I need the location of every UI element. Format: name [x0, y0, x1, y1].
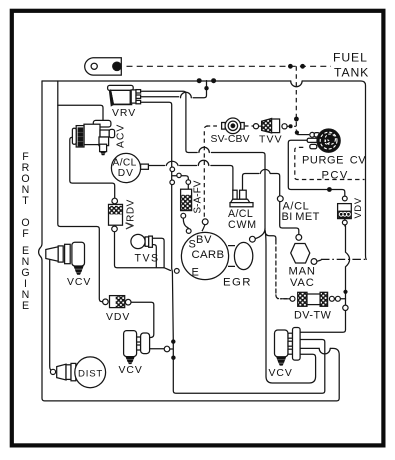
wire: VCV-BR port2 right, down, bottom y393, up to carb-E line — [173, 340, 324, 394]
wire: ACV feed from x57.8 top area — [58, 105, 103, 120]
wire: TVS upper port right and down — [152, 238, 164, 267]
wire: EGR junction from x265 vertical: curve into EGR circle — [255, 229, 265, 239]
svg-text:SV-CBV: SV-CBV — [211, 134, 250, 145]
switch TVS — [131, 234, 153, 248]
wire: PURGE middle prong left, down, right, down to BIMET valve top circle — [288, 140, 345, 195]
valve ACV — [72, 120, 114, 155]
valve VCV bottom-right — [275, 328, 301, 366]
node: carb top circles — [186, 229, 191, 234]
svg-text:A/CL: A/CL — [113, 157, 137, 168]
node: dots on carb-E vertical — [171, 339, 175, 343]
node: circles on carb-E vertical — [170, 167, 175, 172]
wire: CWM right pin up and right to BIMET circle, hop over x265 — [243, 169, 280, 195]
node: SV-CBV line circles — [253, 124, 258, 129]
wire: TVS lower port right and down — [152, 245, 156, 268]
wire: dashed box around PURGE CV / PCV labels — [295, 147, 365, 179]
node: dot on PCV wire — [327, 187, 332, 192]
svg-text:VAC: VAC — [290, 277, 315, 289]
valve A/CL BI MET (thermo valve) — [338, 204, 352, 219]
node: BIMET label circle — [277, 196, 283, 202]
svg-text:VDV: VDV — [353, 197, 363, 218]
svg-text:PURGE CV: PURGE CV — [302, 154, 366, 166]
wire: H2 dip hop under fuel-tank dashed vertical — [291, 81, 302, 87]
wire: VRV middle prong, hop, up to H2 — [141, 81, 207, 98]
svg-text:VCV: VCV — [119, 365, 143, 376]
valve VRV — [108, 85, 141, 105]
wire: dash-dot from DV-TW left circle going left — [277, 298, 290, 300]
valve DV-TW — [298, 292, 328, 306]
svg-text:TANK: TANK — [334, 65, 369, 79]
valve VRDV — [109, 204, 123, 225]
wire: dist feed from VCV-L nozzle down to DIST nozzle circle — [50, 260, 52, 371]
label FRONT OF ENGINE (vertical) — [21, 151, 29, 312]
wire: S-A-FV branch from carb-E line — [172, 176, 188, 189]
svg-text:BV: BV — [196, 234, 212, 246]
wire: EGR junction branch right then dashed down to DV-TW left circle — [265, 232, 276, 241]
svg-text:VCV: VCV — [67, 277, 91, 288]
node: fuel line dots — [288, 64, 293, 69]
valve VDV — [110, 296, 125, 308]
EGR valve — [234, 242, 252, 269]
svg-text:VCV: VCV — [269, 368, 293, 379]
wire: x57.8 from H2 down, right, down to VDV left circle — [58, 81, 103, 302]
svg-text:F: F — [22, 228, 29, 240]
wire: VDV right circle to VCV-mid cap top — [131, 302, 154, 337]
wire: dash-dot manifold line from MAN VAC to right edge — [321, 258, 366, 260]
wire: EGR junction main continue down, around VCV-BR enclosure, to port4 — [265, 230, 316, 384]
wire: A/CL DV output H3 with two hops, down to CWM left pin — [148, 160, 233, 190]
svg-text:EGR: EGR — [223, 276, 252, 288]
svg-text:CWM: CWM — [228, 219, 257, 231]
node: VRDV circles — [112, 198, 118, 204]
wire: ACV left port down and right to VRDV top circle — [70, 137, 115, 198]
svg-text:S-A-FV: S-A-FV — [193, 180, 204, 213]
svg-text:FUEL: FUEL — [333, 51, 368, 65]
node: VCV-mid right circle — [164, 346, 170, 352]
svg-text:DIST: DIST — [78, 369, 103, 380]
svg-text:PCV: PCV — [322, 170, 349, 182]
valve PURGE CV — [307, 129, 340, 152]
wire: SV-CBV / TVV dashed line — [206, 125, 296, 127]
node: DV-TW circles — [290, 296, 295, 301]
valve A/CL DV — [111, 153, 148, 182]
node: stray arrow mark — [126, 223, 133, 229]
wire: S-A-FV bottom circle curve to carb top circle — [183, 218, 188, 228]
node: fuel vertical dots — [294, 117, 299, 122]
sensor top-left cylinder — [85, 58, 122, 75]
wire: carb E line (VRV bottom prong long line) — [141, 102, 174, 341]
valve S-A-FV — [181, 189, 192, 210]
wire: VCV-BR port3 with dip hop under x325 vertical — [300, 348, 330, 354]
node: MAN VAC circles — [296, 235, 302, 241]
node: EGR top circle — [250, 236, 256, 242]
node: dots on right vertical x345 — [343, 290, 347, 294]
node: circle on x345 vertical — [343, 305, 348, 310]
node: BIMET valve circles — [342, 196, 347, 201]
wire: VCV-BR port1 right and up to DV-TW junction and BIMET valve, with right bulge hop at dash-dot — [300, 226, 349, 333]
wire: VCV-mid right port to circle and carb-E vertical — [150, 348, 173, 350]
svg-text:TVV: TVV — [259, 134, 283, 145]
sensor A/CL CWM — [230, 190, 253, 207]
node: circle on S-A-FV branch — [177, 173, 181, 177]
wire: dashed corner down from SV-CBV line to S-A-FV vertical — [204, 126, 208, 219]
node: dot on TVV dashed line — [289, 124, 293, 128]
wire: inner loop (left edge, top H2, right edge) — [42, 81, 366, 259]
valve SV-CBV — [222, 118, 245, 134]
wire: VRV top prong to L1 and long right vertical — [141, 91, 266, 228]
svg-text:DV: DV — [118, 168, 134, 179]
wire: fuel dashed vertical down to PURGE CV prong — [295, 66, 297, 130]
wire: left edge down with detour around VCV nozzle, bottom run, up to VCV-BR port3 — [39, 81, 340, 401]
svg-text:BI MET: BI MET — [282, 211, 320, 223]
svg-text:ACV: ACV — [116, 124, 127, 148]
svg-text:DV-TW: DV-TW — [294, 310, 332, 322]
node: E port circle — [174, 269, 179, 274]
svg-text:MAN: MAN — [289, 266, 316, 278]
svg-text:E: E — [22, 300, 29, 312]
distributor DIST — [57, 357, 106, 388]
valve VCV middle — [124, 331, 150, 365]
valve MAN VAC (hexagon) — [291, 244, 310, 264]
node: VDV circles — [103, 299, 109, 305]
wire: BIMET valve bottom circle continues down (joins vertical) — [344, 219, 346, 226]
node: dot below H2 on middle prong riser — [204, 86, 208, 90]
node: DIST nozzle circle — [50, 369, 55, 374]
svg-text:TVS: TVS — [135, 253, 160, 265]
wire: VRDV bottom circle down and right to E junction — [115, 232, 171, 271]
wire: FUEL TANK dashed line — [127, 65, 332, 67]
wire: L1 hop over dashed SAFV vertical — [199, 147, 209, 152]
svg-text:VDV: VDV — [106, 312, 130, 323]
svg-text:VRV: VRV — [112, 108, 136, 119]
wire: DV-TW right circles to vertical — [334, 298, 345, 300]
connector circles (open) — [50, 124, 348, 375]
wire: MAN VAC right circle to dash-dot line — [317, 260, 321, 261]
wire: BIMET circle down, right, to MAN VAC top circle — [280, 202, 299, 235]
svg-text:CARB: CARB — [192, 249, 225, 261]
node: PURGE prong1 circle — [310, 132, 315, 137]
svg-text:T: T — [22, 195, 29, 207]
carburetor SBV CARB — [181, 232, 252, 279]
node: H2 dots — [197, 78, 202, 83]
valve TVV — [262, 118, 280, 133]
svg-text:E: E — [192, 266, 199, 278]
valve VCV left — [46, 242, 85, 274]
node: S-A-FV bottom circle — [181, 213, 186, 218]
